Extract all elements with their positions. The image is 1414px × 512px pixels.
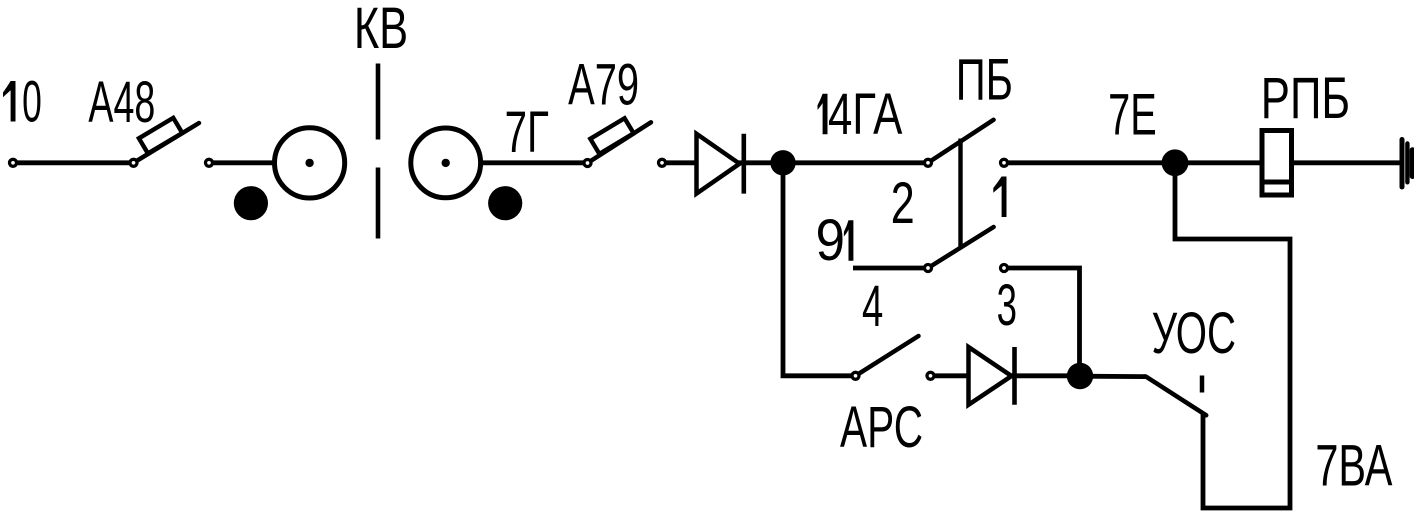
KV contact center dot right — [442, 159, 450, 167]
terminal ПБ pin 3 — [1001, 265, 1008, 272]
wire АРС to diode Д2 to junction — [931, 373, 1081, 378]
wire A48 to KV contact — [209, 160, 276, 165]
svg-text:7ВА: 7ВА — [1315, 432, 1392, 498]
svg-text:АРС: АРС — [840, 395, 923, 460]
svg-text:ПБ: ПБ — [956, 47, 1013, 112]
junction node 14ГА — [770, 150, 795, 175]
wire 91 label one — [844, 220, 854, 260]
switch УОС blade — [1146, 377, 1206, 416]
svg-text:4ГА: 4ГА — [828, 81, 903, 146]
breaker A48 blade — [134, 123, 200, 163]
svg-text:А79: А79 — [568, 52, 639, 117]
switch АРС blade — [856, 336, 919, 376]
switch ПБ link bar — [958, 139, 962, 249]
svg-text:РПБ: РПБ — [1261, 65, 1350, 130]
wire node10 to A48 — [13, 160, 134, 165]
wire 91 — [853, 266, 928, 271]
terminal A48 pivot — [130, 159, 137, 166]
KV cam dot right — [488, 186, 522, 220]
breaker A79 body — [590, 118, 633, 154]
diode Д1 cathode bar — [741, 134, 746, 194]
junction node 7Е — [1162, 149, 1189, 176]
svg-text:КВ: КВ — [354, 0, 408, 60]
svg-text:4: 4 — [862, 275, 883, 339]
terminal before diode Д1 — [659, 159, 666, 166]
diode Д1 triangle — [697, 134, 740, 194]
svg-text:3: 3 — [997, 273, 1017, 338]
terminal node 10 — [10, 159, 17, 166]
terminal ПБ pin 2 — [925, 159, 932, 166]
breaker A48 body — [139, 118, 182, 154]
pin 1 label — [993, 177, 1006, 218]
terminal АРС pivot — [852, 372, 859, 379]
ground bar 2 — [1405, 144, 1409, 183]
terminal ПБ pin 91 — [925, 265, 932, 272]
relay РПБ coil body — [1262, 131, 1292, 196]
svg-text:УОС: УОС — [1152, 301, 1236, 366]
diode Д2 cathode bar — [1012, 347, 1017, 405]
wire junction to УОС — [1080, 374, 1146, 379]
svg-text:7Е: 7Е — [1108, 82, 1157, 147]
node 10 label one — [3, 81, 16, 122]
terminal before KV contact — [206, 159, 213, 166]
wire 14ГА label one — [818, 94, 828, 135]
terminal АРС right — [927, 372, 934, 379]
svg-text:7Г: 7Г — [505, 100, 549, 165]
wire 14ГА — [783, 160, 928, 165]
switch ПБ bottom blade — [928, 227, 994, 268]
svg-text:А48: А48 — [88, 71, 155, 135]
switch УОС actuator dash — [1200, 376, 1205, 393]
switch ПБ top blade — [928, 120, 994, 163]
svg-text:9: 9 — [815, 208, 845, 273]
KV controller contact circle left — [275, 128, 345, 198]
KV controller dashed link — [376, 64, 381, 140]
ground bar 1 — [1400, 140, 1405, 188]
KV controller contact circle right — [411, 128, 481, 198]
ground bar 3 — [1410, 150, 1414, 176]
wire through diode Д1 — [662, 160, 783, 165]
wire pin3 to junction УОС — [1004, 268, 1080, 376]
junction node УОС branch — [1067, 363, 1093, 389]
terminal A79 pivot — [584, 160, 591, 167]
KV contact center dot left — [305, 159, 313, 167]
diode Д2 triangle — [969, 347, 1012, 405]
wire 7Е to ground — [1004, 160, 1400, 165]
relay РПБ divider line — [1260, 180, 1294, 185]
breaker A79 blade — [588, 122, 652, 163]
terminal ПБ pin 1 — [1001, 159, 1008, 166]
svg-text:2: 2 — [891, 171, 915, 236]
KV cam dot left — [234, 186, 268, 220]
wire junction 14ГА down to АРС — [783, 163, 856, 376]
wire 7ВА loop — [1175, 163, 1290, 508]
svg-text:0: 0 — [22, 69, 42, 134]
wire 7Г (KV contact to A79) — [481, 160, 587, 165]
terminal nodes (group) — [10, 159, 1008, 379]
